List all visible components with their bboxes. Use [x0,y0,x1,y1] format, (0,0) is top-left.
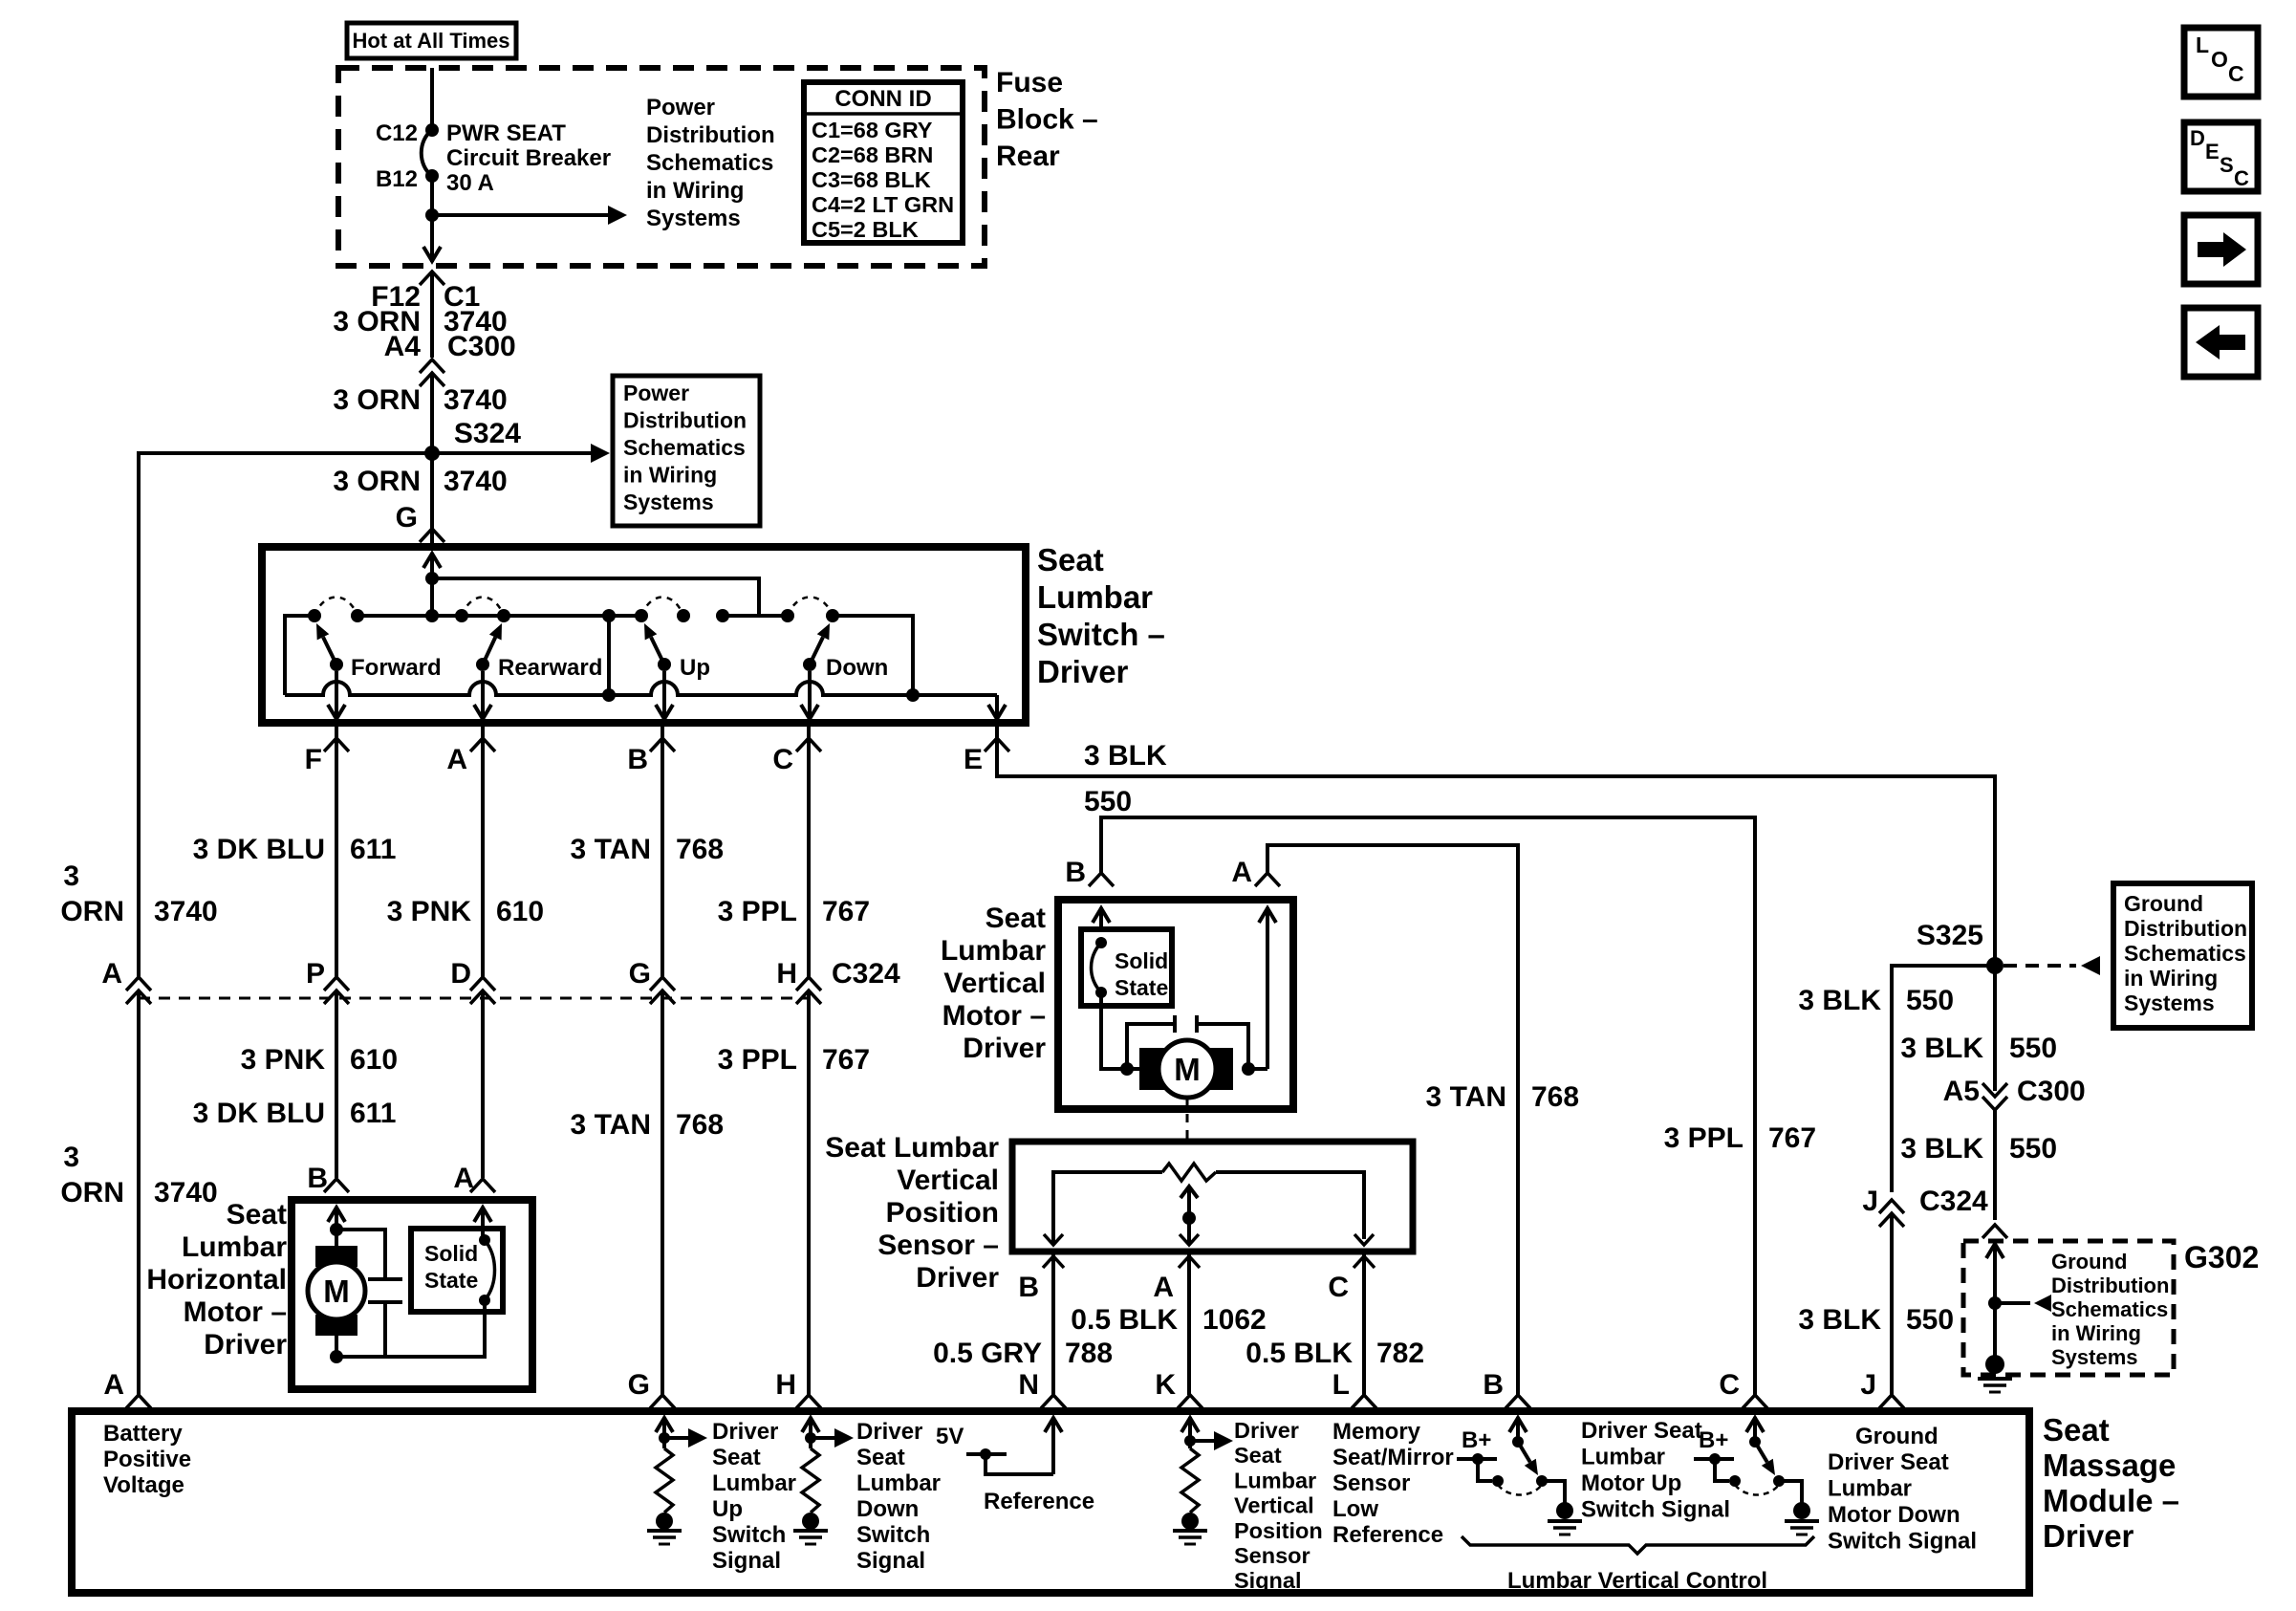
pin label B (horizontal motor) [307,1163,328,1194]
svg-text:K: K [1155,1369,1176,1401]
arrow from S324 to Power Distribution Schematics box [432,444,610,463]
Seat Lumbar Vertical Position Sensor - Driver box [1012,1142,1413,1252]
label: Seat Lumbar Switch - Driver [1037,542,1165,689]
connector fork horizontal motor pin B [324,1179,349,1192]
label: Down [826,655,888,681]
node: contact c1 [716,609,729,622]
contact dots C switch [1729,1475,1785,1487]
node: Forward throw contact [308,609,321,622]
wire: pivot C drop [801,671,818,720]
svg-text:Down: Down [826,655,888,681]
label: Driver Seat Lumbar Down Switch Signal [856,1419,941,1574]
label: Fuse Block - Rear [996,67,1098,172]
node: contact c2 [781,609,794,622]
svg-text:CONN ID: CONN ID [834,86,931,112]
node: B switch pivot [1512,1436,1524,1448]
module pin C [1719,1369,1767,1408]
svg-text:Ground: Ground [2124,891,2203,916]
switch blade B (motor up switch) [1518,1442,1538,1475]
node: right brush junction [1242,1062,1255,1076]
module pin H [775,1369,821,1408]
svg-text:S: S [2220,153,2234,177]
svg-text:3740: 3740 [154,896,218,927]
svg-text:Distribution: Distribution [646,122,775,148]
pull-down resistor at G [656,1448,673,1513]
label: 3 PNK 610 (lower left) [241,1044,398,1076]
ground at B switch [1548,1502,1582,1535]
pin label F12 / C1 [371,281,480,313]
svg-text:Systems: Systems [2051,1345,2138,1369]
svg-text:O: O [2211,47,2228,72]
svg-text:J: J [1862,1186,1878,1217]
svg-text:Schematics: Schematics [2124,941,2246,966]
icon: LOC button [2184,28,2258,97]
connector C324 chevrons wire H [796,977,821,1004]
wire: sensor track end B arrow [1044,1234,1063,1245]
svg-text:Motor –: Motor – [184,1296,287,1328]
svg-text:3 BLK: 3 BLK [1798,985,1881,1016]
wire: wiper output arrow [1180,1234,1199,1245]
connector fork vertical motor pin A [1255,873,1280,886]
Seat Massage Module - Driver box [72,1411,2029,1593]
wire: B switch to ground [1542,1481,1565,1503]
svg-text:Driver: Driver [2043,1518,2134,1554]
node: splice S325 [1986,957,2004,974]
svg-text:3 PPL: 3 PPL [718,1044,797,1076]
capacitor branch (horizontal motor) [336,1230,402,1357]
svg-text:3 TAN: 3 TAN [571,1109,651,1141]
label: 3 PPL 767 (right) [1664,1122,1816,1154]
label: Driver Seat Lumbar Up Switch Signal [712,1419,796,1574]
svg-text:B: B [1065,857,1086,888]
node: G input junction [659,1432,670,1444]
wire: entry into G302 with arrow [1986,1243,2004,1303]
wire: solid state to left brush [1101,992,1147,1069]
solid state switch contacts (vertical motor) [1092,937,1108,998]
svg-text:3 TAN: 3 TAN [571,834,651,865]
connector fork switch pin F [305,723,349,775]
wire: contact bus Rearward to Up [504,614,641,618]
svg-text:3 PNK: 3 PNK [241,1044,326,1076]
module pin N input arrow [1045,1417,1062,1474]
label: Driver Seat Lumbar Motor Up Switch Signal [1581,1418,1730,1523]
connector fork vertical motor pin B [1089,873,1114,886]
wire: C324 to module pin J [1890,1213,1894,1395]
signal arrow K [1190,1431,1233,1450]
pin label J / C324 (ground branch) [1862,1186,1988,1217]
signal arrow G [664,1428,707,1448]
svg-text:Lumbar: Lumbar [1037,579,1153,615]
label: Ground (pin J) [1855,1424,1939,1449]
label: Seat Lumbar Horizontal Motor - Driver [146,1199,287,1361]
svg-text:768: 768 [676,834,724,865]
svg-text:Sensor: Sensor [1234,1543,1310,1568]
motor M (horizontal motor) symbol [308,1246,365,1336]
module pin N [1018,1369,1066,1408]
svg-text:Seat: Seat [856,1445,905,1470]
brace: Lumbar Vertical Control [1462,1536,1814,1554]
label: Reference [984,1489,1094,1514]
pin label A4 / C300 [384,331,516,362]
svg-text:Positive: Positive [103,1447,191,1472]
Fuse Block - Rear dashed outline [338,68,985,266]
svg-text:C300: C300 [447,331,516,362]
svg-text:C300: C300 [2017,1076,2086,1107]
wire: pin B drop to C324 [661,738,664,977]
wire: sensor track end C arrow [1354,1234,1374,1245]
node: G302 junction [1988,1296,2002,1310]
module pin K input arrow [1181,1417,1199,1448]
svg-text:Motor Down: Motor Down [1828,1502,1960,1528]
svg-text:610: 610 [350,1044,398,1076]
svg-text:Battery: Battery [103,1421,183,1447]
svg-text:767: 767 [822,896,870,927]
svg-text:788: 788 [1065,1338,1113,1369]
svg-text:Solid: Solid [1115,948,1168,973]
svg-text:Vertical: Vertical [897,1165,999,1196]
svg-text:A: A [101,958,122,990]
svg-text:State: State [1115,975,1168,1000]
CONN ID table [804,82,963,243]
label: 3 BLK 550 (J branch lower) [1798,1304,1954,1336]
svg-text:Signal: Signal [712,1548,781,1574]
signal arrow H [811,1428,854,1448]
node: common bus junction [906,688,920,702]
svg-text:611: 611 [350,1098,396,1129]
ground symbol G302 [1978,1355,2012,1392]
wire from hot feed into circuit breaker [430,68,434,130]
svg-text:A4: A4 [384,331,422,362]
svg-text:Switch Signal: Switch Signal [1581,1497,1730,1523]
label: Forward [351,655,442,681]
svg-text:Ground: Ground [2051,1250,2127,1274]
svg-text:A: A [103,1369,124,1401]
svg-text:C12: C12 [376,120,418,146]
pull-down resistor at K [1181,1448,1199,1513]
svg-text:550: 550 [2009,1133,2057,1165]
node B12 [376,166,439,192]
connector C324 chevrons wire G [650,977,675,1004]
label: Driver Seat Lumbar Vertical Position Sensor Signal [1234,1418,1323,1593]
svg-text:ORN: ORN [60,1177,124,1208]
ground at G [647,1513,682,1544]
svg-text:Schematics: Schematics [2051,1297,2168,1321]
connector fork switch pin B [627,723,675,775]
arrow to Power Distribution Schematics (top) [432,206,627,225]
node: C switch pivot [1749,1436,1761,1448]
wire: common bus drop to pin E [988,695,1006,720]
dashed arc Forward switch [314,598,357,617]
node: wiper junction [1182,1211,1196,1225]
svg-text:P: P [306,958,325,990]
dashed mechanical link motor to position sensor [1186,1098,1189,1140]
label: 3 ORN 3740 (left branch lower) [60,1142,217,1208]
label: splice S325 [1917,920,1983,951]
icon: previous arrow button [2184,308,2258,377]
dashed arc Up switch [641,598,683,617]
svg-text:in Wiring: in Wiring [2051,1321,2141,1345]
Power Distribution Schematics box (mid) [613,376,760,526]
sensor pin A below box [1153,1252,1200,1395]
svg-text:Position: Position [1234,1518,1323,1543]
label: 3 PPL 767 (lower) [718,1044,870,1076]
switch blade Down [803,623,830,671]
label: Rearward [498,655,602,681]
svg-text:3 DK BLU: 3 DK BLU [193,1098,325,1129]
switch blade Up [644,623,671,671]
label: 3 TAN 768 (right) [1426,1081,1580,1113]
module pin L [1332,1369,1376,1408]
svg-text:Reference: Reference [984,1489,1094,1514]
connector C324 chevrons on wire A [126,977,151,1004]
node: contact a2 [425,609,439,622]
svg-text:782: 782 [1376,1338,1424,1369]
svg-text:Seat/Mirror: Seat/Mirror [1332,1445,1454,1470]
node C12 [376,120,439,146]
label: 3 ORN 3740 (below S324) [333,466,507,497]
label: 3 DK BLU 611 (upper) [193,834,397,865]
node: Down throw contact [826,609,839,622]
svg-text:S325: S325 [1917,920,1983,951]
module pin A [103,1369,151,1408]
svg-text:Lumbar: Lumbar [182,1231,287,1263]
wire: S324 left branch to module pin A (3 ORN 3740) [139,453,432,977]
pin label B (vertical motor) [1065,857,1086,888]
svg-text:Switch –: Switch – [1037,617,1165,652]
svg-text:L: L [2196,33,2209,57]
label: 3 PPL 767 (upper) [718,896,870,927]
node: contact c3 (Up arc end) [677,609,690,622]
svg-text:3 DK BLU: 3 DK BLU [193,834,325,865]
svg-text:B+: B+ [1699,1427,1728,1453]
label: 3 BLK 550 (below S325) [1900,1033,2057,1064]
svg-text:Distribution: Distribution [623,408,747,433]
svg-text:B: B [627,744,648,775]
module pin J [1860,1369,1904,1408]
label: 3 BLK 550 (J branch upper) [1798,985,1954,1016]
dashed reference link S325 to ground distribution box [2004,956,2100,975]
label: Seat Lumbar Vertical Motor - Driver [941,903,1046,1064]
svg-text:Lumbar: Lumbar [712,1470,796,1496]
svg-text:3740: 3740 [444,384,508,416]
svg-text:Vertical: Vertical [943,968,1046,999]
svg-text:30 A: 30 A [446,170,494,196]
svg-text:J: J [1860,1369,1876,1401]
label: 3 DK BLU 611 (lower) [193,1098,397,1129]
svg-text:Circuit Breaker: Circuit Breaker [446,145,611,171]
svg-text:C3=68 BLK: C3=68 BLK [812,167,931,192]
svg-text:3 BLK: 3 BLK [1798,1304,1881,1336]
connector fork at fuse block pin F12 [420,272,444,285]
label: 5V [936,1424,964,1449]
label: Hot at All Times box [347,23,516,58]
wire: C switch to ground [1779,1481,1802,1503]
svg-text:M: M [323,1274,350,1309]
dashed arc B switch [1498,1485,1542,1495]
svg-text:B+: B+ [1462,1427,1491,1453]
node: tie to common bus [602,688,616,702]
wire: power segment Up/Down [723,614,788,618]
svg-text:610: 610 [496,896,544,927]
svg-text:3740: 3740 [154,1177,218,1208]
svg-text:E: E [964,744,983,775]
svg-text:3 BLK: 3 BLK [1084,740,1167,772]
pull-down resistor at H [802,1448,819,1513]
svg-text:Lumbar: Lumbar [856,1470,941,1496]
wire: pin C drop to C324 [807,738,811,977]
switch blade Forward [316,623,343,671]
module pin H input arrow [802,1417,819,1448]
svg-text:Seat: Seat [227,1199,287,1230]
label: Memory Seat/Mirror Sensor Low Reference [1332,1419,1454,1548]
label: 0.5 BLK 1062 [1071,1304,1266,1336]
svg-text:Driver: Driver [856,1419,922,1445]
svg-text:3 PPL: 3 PPL [1664,1122,1744,1154]
svg-text:C5=2 BLK: C5=2 BLK [812,217,919,242]
svg-text:5V: 5V [936,1424,964,1449]
label: Seat Lumbar Vertical Position Sensor - Driver [825,1132,999,1294]
svg-text:3: 3 [63,860,79,892]
Ground Distribution Schematics box (right) [2113,883,2252,1028]
sensor pin C below box [1328,1252,1375,1395]
node: breaker output junction [425,208,439,222]
svg-text:Systems: Systems [2124,991,2215,1015]
svg-text:3 ORN: 3 ORN [333,466,421,497]
wire: fuse block exit arrow [423,241,441,262]
label: 3 ORN 3740 (left branch upper) [60,860,217,927]
svg-text:Voltage: Voltage [103,1472,184,1498]
svg-text:3740: 3740 [444,466,508,497]
wire: C324 to module pin G [661,991,664,1395]
5V reference supply tap [966,1448,1053,1474]
icon: next arrow button [2184,215,2258,284]
Seat Lumbar Horizontal Motor - Driver box [292,1200,532,1389]
label: Lumbar Vertical Control [1507,1568,1767,1594]
module pin G input arrow [656,1417,673,1448]
svg-text:Ground: Ground [1855,1424,1939,1449]
svg-text:Lumbar: Lumbar [1828,1476,1912,1502]
pin label P at C324 [306,958,325,990]
svg-text:Lumbar: Lumbar [1234,1468,1316,1492]
connector fork horizontal motor pin A [470,1179,495,1192]
pin label G at C324 [629,958,651,990]
node: K input junction [1184,1435,1196,1447]
svg-text:550: 550 [1906,1304,1954,1336]
svg-text:Driver: Driver [1234,1418,1299,1443]
svg-text:Driver: Driver [916,1262,999,1294]
Seat Lumbar Vertical Motor - Driver box [1058,900,1293,1109]
svg-text:S324: S324 [454,418,521,449]
svg-text:Driver: Driver [712,1419,778,1445]
contact dots B switch [1492,1475,1548,1487]
svg-text:L: L [1332,1369,1350,1401]
svg-text:Position: Position [886,1197,999,1229]
module pin C input arrow [1746,1417,1764,1442]
wire: pin A drop to C324 [481,738,485,977]
svg-text:H: H [775,1369,796,1401]
svg-text:A: A [1153,1272,1174,1303]
dashed arc C switch [1735,1485,1779,1495]
svg-text:Seat: Seat [1234,1443,1282,1468]
node: contact a4 [497,609,510,622]
potentiometer wiper arrow [1180,1186,1198,1239]
connector fork above G302 [1982,1225,2007,1238]
svg-text:Driver Seat: Driver Seat [1828,1449,1949,1475]
svg-text:Massage: Massage [2043,1448,2176,1483]
svg-text:Up: Up [712,1496,743,1522]
svg-text:C324: C324 [1919,1186,1988,1217]
connector fork switch pin C [772,723,821,775]
svg-text:0.5 GRY: 0.5 GRY [933,1338,1042,1369]
label: 3 ORN 3740 (below C300) [333,384,507,416]
label: Seat Massage Module - Driver [2043,1412,2179,1554]
wire: switch feed entry with up arrow [423,553,441,616]
svg-text:C: C [2234,166,2249,190]
connector C324 chevrons wire D [470,977,495,1004]
svg-text:3 TAN: 3 TAN [1426,1081,1506,1113]
svg-text:Sensor –: Sensor – [877,1230,999,1261]
wire: vertical motor pin B entry arrow [1093,907,1110,929]
svg-text:Rear: Rear [996,141,1060,172]
connector C300 (in-line, double chevron) [420,359,444,386]
label: splice S324 [454,418,521,449]
svg-text:550: 550 [1084,786,1132,817]
svg-text:Seat: Seat [1037,542,1104,577]
connector fork at switch pin G [420,529,444,542]
svg-text:D: D [450,958,471,990]
node: splice S324 [424,446,440,461]
svg-text:A5: A5 [1943,1076,1980,1107]
wire: C300 to G302 [1993,1110,1997,1220]
svg-text:in Wiring: in Wiring [623,463,717,488]
svg-text:Switch: Switch [856,1522,930,1548]
svg-text:0.5 BLK: 0.5 BLK [1071,1304,1178,1336]
pin label A at C324 [101,958,122,990]
svg-text:C: C [2228,61,2244,86]
svg-text:Seat Lumbar: Seat Lumbar [825,1132,999,1164]
sensor pin B below box [1018,1252,1064,1395]
label: 3 TAN 768 (upper) [571,834,725,865]
svg-text:Lumbar: Lumbar [1581,1445,1665,1470]
svg-text:Lumbar: Lumbar [941,935,1046,967]
svg-text:Systems: Systems [623,490,714,514]
switch blade Rearward [476,623,502,671]
pin label A (vertical motor) [1231,857,1252,888]
svg-text:C: C [1328,1272,1349,1303]
label: B+ (up switch) [1462,1427,1491,1453]
svg-text:767: 767 [1768,1122,1816,1154]
node: contact a3 [455,609,468,622]
connector C324 chevrons wire J [1879,1200,1904,1227]
svg-text:Solid: Solid [424,1241,478,1266]
svg-text:Horizontal: Horizontal [146,1264,287,1295]
motor M (vertical motor) symbol [1139,1040,1233,1098]
node: left brush junction [1120,1062,1134,1076]
svg-text:767: 767 [822,1044,870,1076]
svg-text:State: State [424,1268,478,1293]
svg-text:Block –: Block – [996,104,1098,136]
wire below breaker to fuse block exit [430,176,434,241]
svg-text:Motor –: Motor – [942,1000,1046,1032]
label: Battery Positive Voltage [103,1421,191,1498]
svg-text:Systems: Systems [646,206,741,231]
pin label A (horizontal motor) [453,1163,474,1194]
svg-text:Distribution: Distribution [2124,916,2247,941]
wire: vertical tie to common bus [607,616,611,695]
svg-text:Up: Up [680,655,710,681]
wire: S325 down (3 BLK 550) [1993,966,1997,1091]
solid state box (vertical motor) [1081,929,1172,1006]
